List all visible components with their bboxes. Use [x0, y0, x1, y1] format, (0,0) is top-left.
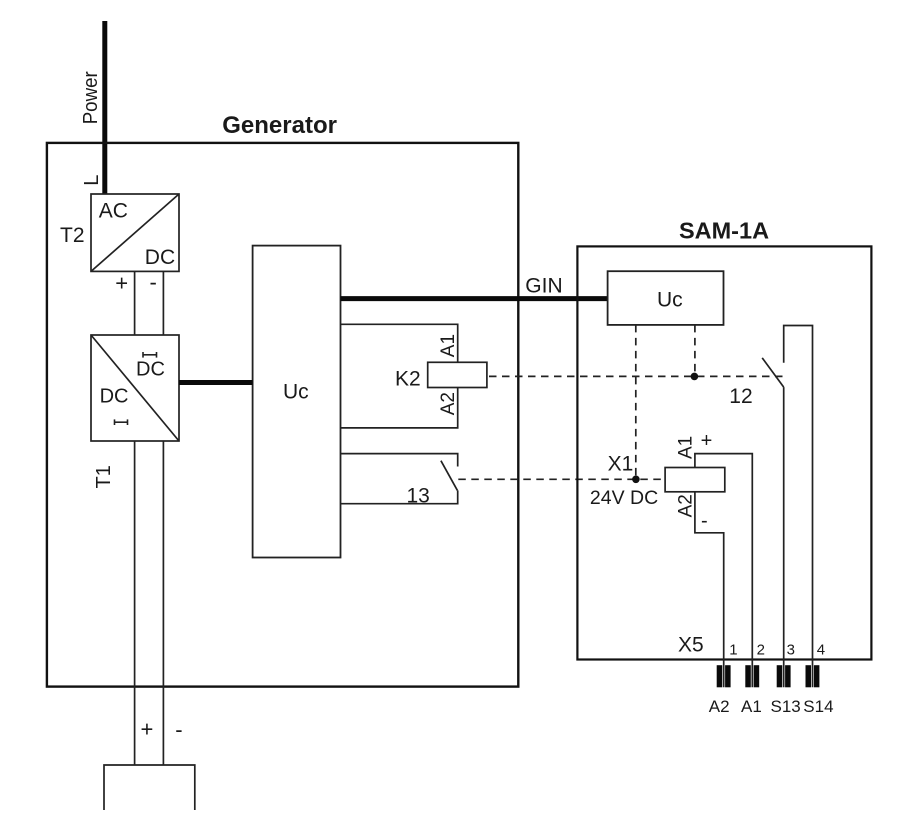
- svg-text:X5: X5: [678, 634, 704, 657]
- wire K2 A2 to Uc: [341, 388, 458, 428]
- svg-text:+: +: [140, 717, 153, 742]
- svg-text:S14: S14: [803, 697, 833, 716]
- svg-text:GIN: GIN: [525, 275, 562, 298]
- wire T2 to T1 plus: [134, 271, 136, 335]
- Generator enclosure box: [47, 143, 518, 687]
- svg-text:+: +: [701, 430, 713, 452]
- terminal X5:3: [777, 665, 791, 687]
- svg-text:Uc: Uc: [283, 381, 309, 404]
- wire T1 to battery plus: [134, 441, 136, 765]
- svg-text:2: 2: [757, 642, 765, 659]
- svg-text:X1: X1: [608, 453, 634, 476]
- terminal X5:4: [806, 665, 820, 687]
- svg-text:A2: A2: [675, 494, 696, 517]
- svg-text:T1: T1: [93, 465, 115, 488]
- battery box: [104, 765, 195, 810]
- svg-text:+: +: [115, 271, 128, 296]
- relay coil K2: [428, 362, 487, 387]
- wire Uc to K2 A1: [341, 324, 458, 362]
- svg-text:-: -: [175, 717, 182, 742]
- svg-text:A2: A2: [709, 697, 730, 716]
- junction X1: [632, 476, 640, 484]
- dashed stub Uc to X1: [635, 325, 637, 479]
- svg-text:A1: A1: [741, 697, 762, 716]
- contact 13 upper wire: [341, 454, 458, 467]
- wire A1 to X5 pin 2: [695, 454, 752, 688]
- wire GIN Uc to SAM (thick): [341, 296, 608, 301]
- svg-text:4: 4: [817, 642, 825, 659]
- contact 13 lower wire: [341, 490, 458, 503]
- svg-text:12: 12: [729, 385, 752, 408]
- dashed link contact 13 to X1: [458, 478, 665, 480]
- svg-text:AC: AC: [99, 200, 128, 223]
- svg-text:A1: A1: [438, 334, 459, 357]
- svg-text:S13: S13: [771, 697, 801, 716]
- svg-text:SAM-1A: SAM-1A: [679, 218, 769, 244]
- svg-text:A2: A2: [438, 392, 459, 415]
- junction node 12: [691, 373, 699, 381]
- power supply Uc (SAM): [608, 271, 724, 325]
- svg-text:Power: Power: [79, 71, 102, 124]
- wire T2 to T1 minus: [162, 271, 164, 335]
- terminal X5:2: [745, 665, 759, 687]
- svg-text:-: -: [150, 270, 157, 295]
- contact 12 fixed side and S14 wire: [784, 326, 813, 688]
- svg-text:DC: DC: [145, 246, 175, 269]
- svg-text:T2: T2: [60, 224, 85, 247]
- svg-text:13: 13: [407, 485, 430, 508]
- svg-text:-: -: [701, 510, 708, 532]
- svg-text:L: L: [81, 175, 103, 186]
- wire A2 to X5 pin 1: [695, 492, 724, 688]
- svg-text:DC: DC: [136, 359, 165, 381]
- svg-text:3: 3: [787, 642, 795, 659]
- contact 12 blade: [762, 358, 784, 387]
- converter T1 (DC/DC): [91, 335, 179, 441]
- svg-text:24V DC: 24V DC: [590, 487, 658, 509]
- wire T1 to Uc (thick): [179, 380, 253, 385]
- wire T1 to battery minus: [162, 441, 164, 765]
- relay coil A1/A2 (SAM): [665, 468, 725, 492]
- svg-text:Uc: Uc: [657, 289, 683, 312]
- svg-text:1: 1: [729, 642, 737, 659]
- wire contact 12 to X5 pin 3: [783, 387, 785, 687]
- svg-text:DC: DC: [100, 386, 129, 408]
- DC symbol (T1 upper): [143, 352, 157, 358]
- wire: AC power feed (thick): [102, 21, 107, 194]
- svg-text:A1: A1: [675, 436, 696, 459]
- contact 13 blade: [441, 461, 458, 491]
- dashed stub Uc to node 12: [694, 325, 696, 377]
- DC symbol (T1 lower): [115, 419, 128, 425]
- terminal X5:1: [717, 665, 731, 687]
- controller Uc (Generator): [253, 246, 341, 558]
- svg-text:K2: K2: [395, 368, 421, 391]
- converter T2 (AC/DC): [91, 194, 179, 271]
- svg-text:Generator: Generator: [222, 112, 337, 139]
- dashed link K2 coil to node 12: [489, 375, 784, 377]
- SAM-1A enclosure box: [577, 246, 871, 659]
